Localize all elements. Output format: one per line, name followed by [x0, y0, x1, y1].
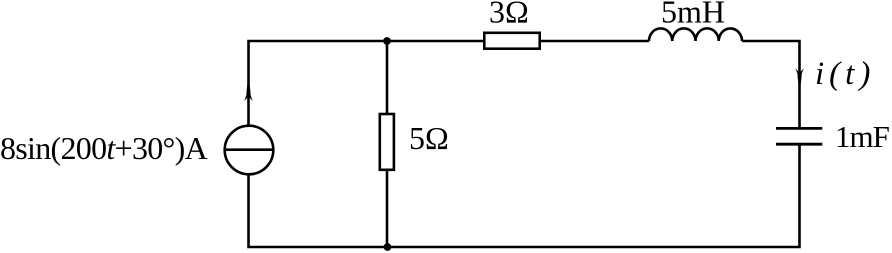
wire top-left segment	[249, 41, 484, 125]
wire top middle segment	[541, 40, 649, 43]
wire middle branch lower	[386, 171, 389, 247]
resistor 5Ω	[380, 114, 394, 170]
current arrow i(t) (down)	[795, 68, 803, 89]
inductor 5mH	[649, 28, 742, 41]
current source arrow (up)	[244, 80, 252, 102]
svg-text:3Ω: 3Ω	[489, 0, 529, 30]
capacitor 1mF plates	[776, 128, 822, 144]
svg-text:1mF: 1mF	[835, 119, 890, 154]
node bottom junction	[384, 243, 392, 251]
resistor 3Ω	[484, 33, 539, 49]
wire top right segment	[742, 41, 800, 128]
wire bottom	[249, 144, 800, 247]
node top junction	[383, 37, 391, 45]
svg-text:8sin(200t+30°)A: 8sin(200t+30°)A	[0, 130, 208, 166]
svg-text:i(t): i(t)	[815, 56, 875, 92]
current source IS	[225, 126, 274, 175]
svg-text:5Ω: 5Ω	[409, 120, 449, 156]
wire middle branch upper	[386, 41, 389, 113]
svg-text:5mH: 5mH	[661, 0, 725, 29]
